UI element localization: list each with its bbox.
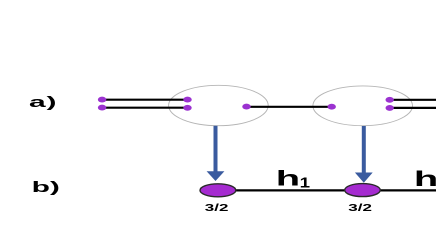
mapping arrow 1 (207, 126, 225, 181)
mapping arrow 2 (355, 126, 373, 183)
svg-text:3/2: 3/2 (348, 202, 372, 213)
single bond wire middle (247, 106, 332, 108)
svg-text:a): a) (29, 94, 57, 110)
single spin dot in block 1 (242, 104, 250, 110)
spin dot pair far left (98, 97, 106, 111)
single spin dot in block 2 (328, 104, 336, 110)
double bond wire bottom left (102, 107, 188, 109)
block 2 outline ellipse (313, 86, 413, 126)
spin-3/2 site blob 2 (345, 184, 381, 197)
double bond wire top left (102, 99, 188, 101)
spin dot pair in block 2 (386, 97, 394, 111)
svg-text:h: h (276, 166, 300, 190)
svg-text:1: 1 (300, 174, 310, 191)
double bond wire bottom right (390, 107, 436, 109)
chain wire row b (217, 189, 436, 191)
double bond wire top right (390, 99, 436, 101)
svg-text:b): b) (32, 179, 60, 195)
spin-3/2 site blob 1 (200, 184, 236, 197)
spin dot pair in block 1 (183, 97, 191, 111)
svg-text:3/2: 3/2 (205, 202, 229, 213)
svg-text:h: h (414, 167, 436, 191)
block 1 outline ellipse (169, 85, 269, 125)
